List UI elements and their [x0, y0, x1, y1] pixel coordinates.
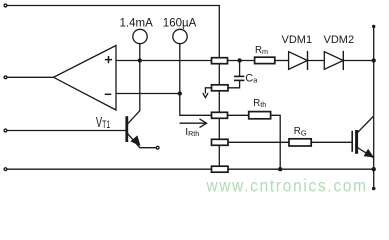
- current source I2 160uA: [173, 29, 187, 43]
- current source I1 1.4mA: [133, 29, 147, 43]
- label VDM1: [282, 34, 313, 46]
- node - / I2 junction: [178, 91, 182, 95]
- wire I2 stub down through - node then right to ladder tap C: [180, 43, 212, 115]
- resistor ladder R4 (tap D): [212, 139, 229, 145]
- terminal right bus bottom: [372, 187, 376, 191]
- resistor Rm: [255, 57, 275, 63]
- diode VDM2: [324, 51, 343, 70]
- svg-text:VDM2: VDM2: [324, 34, 355, 46]
- resistor ladder R2 (tap B): [212, 85, 229, 91]
- IGBT Q1: [352, 116, 374, 158]
- wire op-amp output to left terminal: [6, 76, 54, 78]
- terminal VT1 base: [4, 129, 7, 132]
- arrow IRth current direction: [180, 119, 207, 128]
- wire Rth right then down to bottom rail: [271, 115, 281, 169]
- wire inverting input line (-): [116, 93, 180, 95]
- label IRth: [185, 126, 199, 138]
- watermark www.cntronics.com: [206, 175, 368, 195]
- diode VDM1: [289, 51, 308, 70]
- wire Ca branch from node down to top plate: [239, 61, 241, 77]
- svg-text:www.cntronics.com: www.cntronics.com: [206, 175, 368, 195]
- op-amp U1: [54, 46, 117, 111]
- wire Rm to diode VDM1: [275, 60, 289, 62]
- terminal bottom rail: [4, 168, 7, 171]
- resistor ladder R1 (tap A): [212, 58, 228, 64]
- resistor ladder R3 (tap C): [212, 112, 228, 118]
- terminal VT1 emitter: [156, 146, 159, 149]
- label 1.4mA: [120, 17, 154, 29]
- wire between diodes: [308, 60, 325, 62]
- svg-text:Rm: Rm: [255, 45, 268, 56]
- resistor ladder vertical wire: [218, 58, 220, 167]
- capacitor Ca: [234, 76, 244, 80]
- wire top rail from left terminal to ladder top: [6, 6, 220, 58]
- wire bottom rail: [6, 168, 374, 170]
- svg-text:160µA: 160µA: [163, 17, 197, 29]
- node VDM2 / right bus junction: [372, 58, 376, 62]
- wire right vertical bus: [373, 27, 375, 189]
- node emitter / bottom rail junction: [372, 167, 376, 171]
- label Rm: [255, 45, 268, 56]
- open terminals: [4, 4, 159, 171]
- terminal right bus top: [372, 25, 375, 28]
- label 160uA: [163, 17, 197, 29]
- resistor ladder R5 (bottom, in rail): [212, 166, 229, 172]
- wire tap B left stub with down arrow: [203, 88, 212, 98]
- terminal top rail: [4, 4, 7, 7]
- wire tap C to Rth: [228, 114, 249, 116]
- wire tap A to Rm node: [228, 60, 255, 62]
- transistor VT1: [127, 116, 156, 148]
- node Rth / bottom rail junction: [278, 167, 282, 171]
- label VDM2: [324, 34, 355, 46]
- wire VDM2 cathode to right bus: [343, 60, 373, 62]
- svg-text:1.4mA: 1.4mA: [120, 17, 154, 29]
- resistor Rth: [249, 112, 271, 119]
- label VT1: [96, 114, 110, 131]
- wire tap D to RG then to IGBT gate: [228, 141, 352, 143]
- node Ca / Rm junction: [237, 58, 241, 62]
- svg-text:VDM1: VDM1: [282, 34, 313, 46]
- svg-text:RG: RG: [294, 126, 307, 137]
- wire I1 stub down through + node to VT1 collector: [127, 43, 139, 124]
- terminal op-amp output: [4, 76, 7, 79]
- wire noninverting input line (+): [116, 60, 212, 62]
- wire VT1 base to left terminal: [6, 130, 126, 132]
- node + / I1 junction: [138, 58, 142, 62]
- wire Ca bottom plate to ladder tap B: [228, 80, 240, 87]
- label RG: [294, 126, 307, 137]
- resistor RG: [289, 139, 311, 146]
- label Rth: [253, 98, 266, 109]
- label Ca: [245, 73, 258, 85]
- svg-text:Rth: Rth: [253, 98, 266, 109]
